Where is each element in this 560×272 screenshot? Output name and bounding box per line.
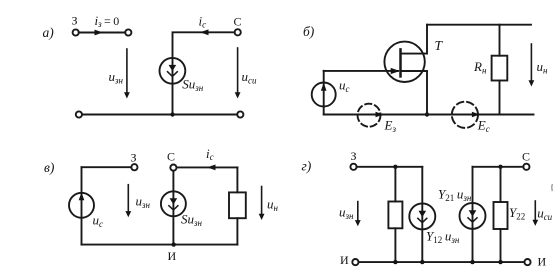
svg-text:в): в) <box>44 160 55 175</box>
wire top-left rail <box>357 166 423 168</box>
voltage arrow u_zn <box>109 49 130 99</box>
voltage arrow u_si <box>532 201 552 226</box>
node Z gate terminal <box>72 14 79 36</box>
svg-text:С: С <box>167 150 175 164</box>
svg-text:С: С <box>522 149 530 163</box>
svg-text:г): г) <box>302 159 312 174</box>
svg-text:З: З <box>72 14 78 28</box>
voltage arrow u_n <box>529 44 549 87</box>
svg-text:б): б) <box>303 24 315 39</box>
voltage arrow u_zn <box>339 202 361 227</box>
svg-text:И: И <box>538 255 547 269</box>
scan artifact mark <box>551 184 554 191</box>
node Z gate terminal <box>131 151 138 171</box>
wire source lead down <box>426 71 428 115</box>
controlled current source Y12u_zn <box>409 167 435 262</box>
wire bottom rail <box>324 114 534 116</box>
node source terminal right <box>237 111 243 117</box>
controlled current source Su_zn <box>161 171 186 245</box>
svg-text:И: И <box>340 253 349 267</box>
node Z gate terminal <box>350 149 356 170</box>
node open end of gate wire <box>125 29 131 35</box>
voltage source u_c <box>312 71 336 115</box>
node I terminal right <box>524 255 546 269</box>
junction dots bottom rail <box>393 260 503 264</box>
controlled current source Su_zn <box>160 58 186 84</box>
resistor Y11 <box>388 167 402 262</box>
junction dot top Y22 <box>498 165 502 169</box>
wire drain with current arrow i_c <box>177 165 238 171</box>
wire bottom rail <box>82 114 237 116</box>
wire gate rail <box>82 166 132 168</box>
node C drain terminal <box>167 150 176 171</box>
junction dot node I <box>168 242 177 262</box>
voltage source u_c <box>69 167 94 244</box>
resistor Y22 <box>494 167 508 262</box>
svg-text:а): а) <box>43 25 55 40</box>
svg-text:З: З <box>351 149 357 163</box>
wire top-right rail <box>473 166 524 168</box>
wire top rail <box>427 24 531 26</box>
junction dot <box>425 112 429 116</box>
node I terminal left <box>340 253 359 267</box>
wire bottom rail <box>82 244 238 246</box>
wire bottom rail I-I <box>359 261 525 263</box>
resistor load <box>229 167 246 244</box>
svg-text:С: С <box>234 15 242 29</box>
svg-text:И: И <box>168 249 177 263</box>
voltage arrow u_zn <box>125 185 150 218</box>
wire gate with current arrow i_z <box>79 30 125 36</box>
controlled current source Y21u_zn <box>460 167 486 262</box>
voltage arrow u_si <box>235 48 257 99</box>
junction dot <box>170 112 174 116</box>
transistor T <box>384 25 427 82</box>
loop E_c dashed contour with arrow <box>452 102 480 128</box>
node source terminal left <box>76 111 82 117</box>
wire drain with current arrow i_c <box>173 29 235 114</box>
wire gate to transistor <box>324 70 398 72</box>
voltage arrow u_n <box>259 187 279 221</box>
loop E_z dashed contour with arrow <box>358 104 384 127</box>
svg-text:З: З <box>131 151 137 165</box>
node C drain terminal <box>234 15 242 36</box>
resistor R_n <box>492 25 508 115</box>
node C drain terminal <box>522 149 530 170</box>
junction dot top Y11 <box>393 165 397 169</box>
